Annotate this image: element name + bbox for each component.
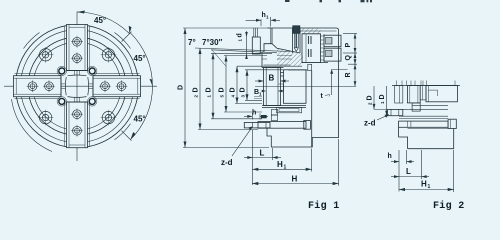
taper dim lines: [195, 48, 290, 52]
svg-text:7°: 7°: [188, 38, 196, 47]
lower block: [399, 127, 454, 148]
envelope arc bottom-right: [115, 124, 131, 140]
master jaw screw slots: [309, 36, 312, 57]
dim D4: [235, 66, 262, 103]
svg-text:H: H: [421, 180, 427, 189]
flange band: [399, 121, 449, 127]
top boundary: [392, 85, 460, 87]
svg-text:D: D: [367, 95, 374, 100]
svg-text:B: B: [269, 74, 275, 83]
z-d stud fig2: [388, 109, 403, 115]
left column: [395, 86, 403, 104]
centerline vertical: [76, 12, 78, 162]
small block under guide: [412, 103, 420, 111]
pinion upper-right: [101, 47, 117, 63]
D1 dim fig2: [386, 86, 388, 116]
svg-text:1: 1: [428, 184, 431, 190]
45 deg dim: right upper arc: [130, 33, 152, 86]
screw pocket circles: [57, 66, 66, 75]
pinion lower-right: [101, 110, 117, 126]
svg-text:d: d: [237, 33, 244, 37]
h dim: [244, 114, 268, 120]
L dim: [244, 130, 281, 185]
body circle: [16, 25, 139, 148]
boss circle outer: [28, 37, 126, 135]
screw lower-left: [59, 98, 65, 104]
svg-text:D: D: [219, 87, 226, 92]
B dim arrows: [255, 80, 264, 82]
top cut-off text marks: [285, 0, 372, 2]
master jaw block: [302, 34, 321, 63]
small stud section rects: [271, 110, 277, 116]
svg-text:45°: 45°: [134, 115, 146, 124]
taper bottom line: [237, 65, 302, 67]
dim D3: [245, 70, 284, 101]
left face inner line: [270, 28, 272, 44]
taper slant line: [272, 44, 300, 53]
pinion upper-left: [38, 47, 54, 63]
screw upper-left: [59, 68, 65, 74]
45 deg dim: top arc: [77, 12, 130, 34]
P Q R chained dims: [343, 34, 357, 87]
hatch region taper: [277, 49, 303, 66]
jaw bolts: right jaw: [99, 80, 127, 92]
envelope arc bottom-left: [12, 99, 53, 152]
pinion tip: [294, 48, 298, 52]
svg-text:1: 1: [284, 165, 287, 171]
bolt head block: [304, 121, 311, 130]
svg-text:z-d: z-d: [364, 119, 376, 128]
nested band: [277, 107, 302, 112]
arrow top arc left end: [77, 11, 85, 14]
svg-text:h: h: [388, 153, 392, 160]
slot line bottom: [64, 100, 66, 147]
svg-text:H: H: [292, 175, 298, 184]
B-block (jaw slot guide): [264, 68, 281, 106]
small box top-left: [252, 37, 260, 54]
top jaw lower: [324, 48, 341, 61]
lower-body step edge: [311, 71, 313, 147]
envelope arc top-right: [115, 33, 131, 49]
svg-text:45°: 45°: [94, 16, 106, 25]
slot line top left: [64, 26, 66, 74]
pinion lower-left: [38, 110, 54, 126]
jaw bolts: left jaw: [27, 80, 55, 92]
radial line 45 lower-right: [122, 131, 132, 141]
slot line right: [92, 73, 140, 75]
jaw top: [67, 25, 88, 71]
band row1: [412, 104, 448, 106]
hidden lines in taper: [277, 55, 292, 59]
t ext line: [332, 68, 348, 70]
pinion channel left: [292, 28, 294, 53]
pinion channel right: [299, 28, 301, 53]
serration zone: [321, 36, 325, 60]
svg-text:D: D: [178, 85, 185, 90]
nut block notch bottom: [279, 84, 284, 91]
45 labels: [94, 16, 146, 124]
svg-text:L: L: [260, 149, 265, 158]
right nut block: [284, 70, 307, 104]
bolt block right: [448, 119, 456, 128]
B-block top cover lines: [262, 67, 284, 69]
notch inside body block: [428, 90, 437, 96]
jaw left: [14, 76, 62, 97]
svg-text:Fig 1: Fig 1: [308, 200, 340, 212]
jaw bottom: [67, 102, 88, 148]
narrow block: [420, 86, 426, 100]
45 deg dim: right lower arc: [130, 86, 152, 139]
dim D5: [224, 56, 262, 113]
recess lines: [262, 56, 267, 60]
jaw right: [93, 76, 141, 97]
svg-text:Q: Q: [345, 55, 352, 61]
envelope arc top-left: [24, 33, 40, 49]
pinion shaft core: [295, 33, 297, 48]
radial line 45 upper-right: [122, 32, 132, 42]
bore slot right: [89, 84, 94, 89]
nut block notch top: [281, 73, 284, 77]
bore slot left: [61, 84, 66, 89]
hatch region top-right strip: [300, 28, 321, 33]
slot line left: [15, 73, 63, 75]
svg-text:h: h: [252, 110, 256, 117]
svg-text:D: D: [230, 87, 237, 92]
svg-text:z-d: z-d: [221, 158, 233, 167]
screw upper-right: [89, 68, 95, 74]
arrow right-lower arc end: [130, 132, 135, 140]
svg-text:P: P: [345, 43, 352, 48]
slot line top right: [89, 26, 91, 74]
d1 dim: [247, 28, 258, 59]
dim D: [183, 28, 270, 148]
z-d stud: [244, 123, 270, 128]
svg-text:H: H: [277, 160, 283, 169]
back plate band rows: [262, 106, 306, 108]
bore slot top: [75, 71, 80, 76]
svg-text:R: R: [345, 72, 352, 77]
band row3: [399, 115, 448, 117]
H dim: [252, 139, 338, 186]
jaw bolts: top jaw: [71, 36, 83, 64]
chamfer circle: [21, 30, 134, 143]
body outline: [267, 28, 339, 147]
top jaw upper: [324, 35, 341, 47]
step block right of bore: [308, 64, 312, 70]
screw lower-right: [89, 98, 95, 104]
center pillow sides: [65, 75, 88, 97]
svg-text:L: L: [406, 167, 411, 176]
body block: [426, 86, 457, 102]
left face: [262, 28, 272, 68]
svg-text:45°: 45°: [134, 54, 146, 63]
pinion shaft dark head: [293, 26, 300, 34]
arrow top arc right end: [129, 26, 132, 34]
t leader: [331, 69, 333, 95]
pinion shaft body: [294, 33, 298, 48]
band row2: [403, 108, 448, 110]
svg-text:D: D: [379, 94, 386, 99]
arrow right-upper arc end: [150, 79, 153, 87]
t leader arrow: [330, 69, 333, 74]
B1 arrows: [262, 90, 267, 93]
flange band: [258, 122, 306, 129]
dark key rect: [261, 115, 267, 118]
ledge line 3: [288, 69, 308, 71]
svg-text:7°30″: 7°30″: [202, 38, 223, 47]
H1 dim: [252, 149, 311, 172]
svg-text:D: D: [206, 87, 213, 92]
svg-text:D: D: [193, 87, 200, 92]
boss circle inner: [33, 42, 121, 130]
D2 dim fig2: [374, 86, 387, 109]
svg-text:Fig 2: Fig 2: [433, 200, 465, 212]
z-d leader: [232, 127, 253, 157]
top chamfer line: [300, 30, 337, 32]
jaw bolts: bottom jaw: [71, 108, 83, 136]
centerline horizontal: [4, 85, 157, 87]
break ticks: [397, 81, 455, 86]
dim D2: [198, 48, 258, 130]
ledge under jaws: [302, 62, 328, 64]
guide block: [407, 86, 420, 103]
svg-text:D: D: [240, 87, 247, 92]
dim D1: [211, 53, 272, 119]
bore slot bottom: [75, 97, 80, 102]
axis centerline: [255, 85, 356, 87]
